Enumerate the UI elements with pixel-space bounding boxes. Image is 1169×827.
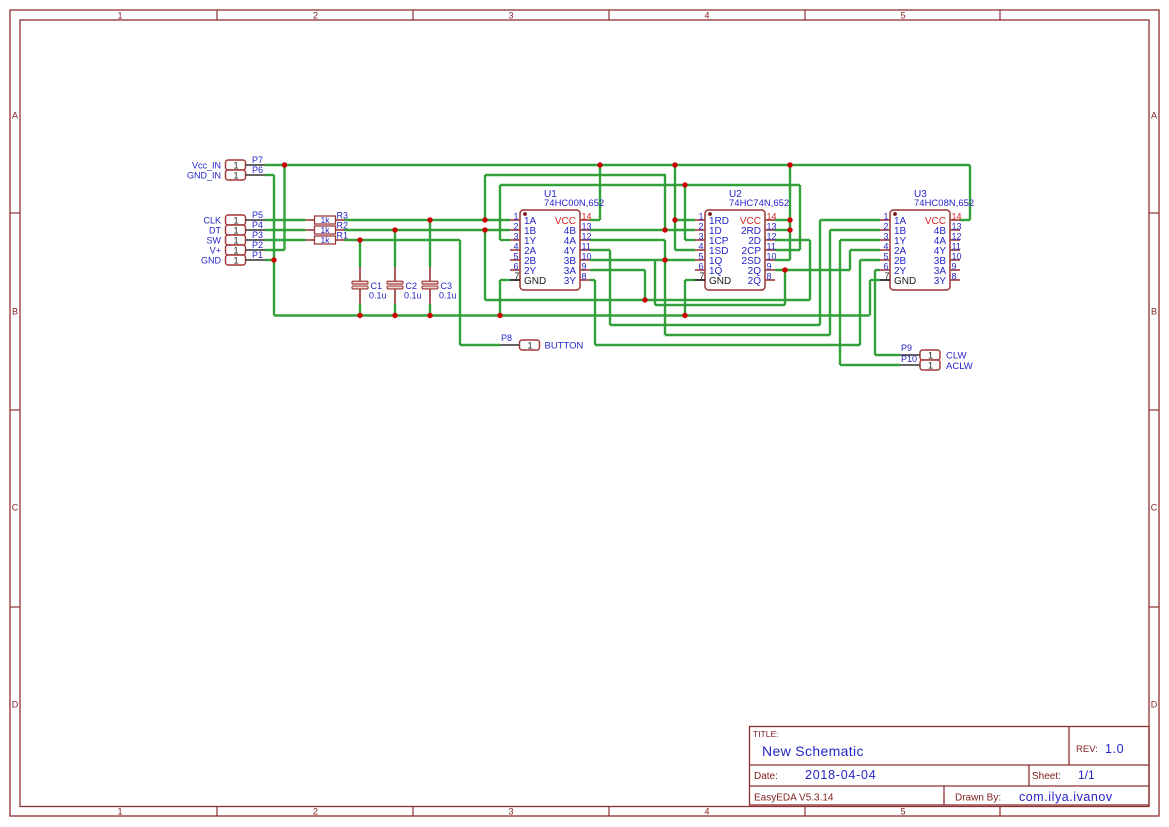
U1 pin 9 (3A) — [564, 262, 590, 278]
junction — [787, 217, 792, 222]
svg-text:0.1u: 0.1u — [369, 291, 387, 301]
svg-text:10: 10 — [767, 252, 777, 262]
wire to U3 pin2 — [830, 229, 880, 231]
capacitor C1 0.1u — [352, 267, 387, 304]
svg-text:10: 10 — [582, 252, 592, 262]
svg-text:D: D — [12, 700, 19, 710]
wire SW to P8 — [460, 344, 500, 346]
wire to U3 pin3 — [840, 239, 880, 241]
svg-text:R2: R2 — [337, 221, 349, 231]
U1 pin 12 (4A) — [564, 232, 592, 248]
svg-text:GND: GND — [709, 276, 731, 287]
wire to U3 pin5 — [860, 259, 880, 261]
svg-text:5: 5 — [900, 11, 905, 21]
U2 pin 7 (GND) — [695, 271, 731, 287]
svg-text:3: 3 — [698, 232, 703, 242]
wire U2 pin9 — [775, 269, 850, 271]
svg-text:4: 4 — [698, 242, 703, 252]
svg-text:8: 8 — [767, 272, 772, 282]
ruler row letters left — [12, 111, 19, 710]
connector P6 (GND_IN) — [187, 165, 265, 182]
wire to U1 pin3 — [500, 239, 510, 241]
svg-text:2: 2 — [883, 222, 888, 232]
wire U1 pin12 down — [664, 240, 666, 335]
connector P9 (CLW) — [900, 343, 966, 362]
svg-text:0.1u: 0.1u — [439, 291, 457, 301]
wire U1 pin8 — [590, 279, 595, 281]
svg-text:2: 2 — [313, 11, 318, 21]
svg-text:1: 1 — [527, 341, 532, 352]
svg-text:P5: P5 — [252, 210, 263, 220]
svg-text:com.ilya.ivanov: com.ilya.ivanov — [1019, 790, 1113, 804]
wire row 325 — [610, 324, 820, 326]
svg-text:10: 10 — [952, 252, 962, 262]
IC U1 74HC00N,652 body — [520, 189, 604, 290]
svg-text:1: 1 — [233, 171, 238, 182]
wire U3 pin2 down to row335 — [829, 230, 831, 335]
U3 pin 1 (1A) — [880, 212, 907, 228]
wire 1CP up to row185 — [684, 185, 686, 240]
resistor R2 1k — [306, 221, 349, 236]
wire 1Y up to row185 — [499, 185, 501, 240]
svg-text:New Schematic: New Schematic — [762, 743, 864, 759]
wire U1 pin10 to U2 pin5 — [590, 259, 695, 261]
wire U2 pin14 — [775, 219, 790, 221]
wire link 175-220 — [484, 175, 486, 220]
U1 pin 3 (1Y) — [510, 232, 537, 248]
junction — [271, 257, 276, 262]
svg-text:A: A — [1151, 111, 1157, 121]
svg-text:7: 7 — [884, 271, 889, 281]
wire C2 top — [394, 230, 396, 267]
svg-text:P10: P10 — [901, 354, 917, 364]
U1 pin 7 (GND) — [510, 271, 546, 287]
svg-text:P6: P6 — [252, 165, 263, 175]
svg-text:5: 5 — [513, 252, 518, 262]
svg-text:3Y: 3Y — [564, 276, 577, 287]
U1 pin 4 (2A) — [510, 242, 537, 258]
wire 2CP up to row185 — [799, 185, 801, 250]
wire CLK to U1 pin1 — [345, 219, 511, 221]
wire U1 pin12 — [590, 239, 665, 241]
svg-text:GND: GND — [894, 276, 916, 287]
U2 pin 13 (2RD) — [741, 222, 777, 238]
wire U3 pin3 down to row365 — [839, 240, 841, 365]
connector P3 (SW) — [207, 230, 266, 247]
svg-text:9: 9 — [767, 262, 772, 272]
svg-text:BUTTON: BUTTON — [545, 341, 584, 352]
wire U1 pin8 down — [594, 280, 596, 345]
svg-text:2Q: 2Q — [748, 276, 762, 287]
svg-text:1: 1 — [233, 256, 238, 267]
U2 pin 14 (VCC) — [740, 212, 777, 228]
wire U3 pin14 — [960, 219, 970, 221]
wire SW from R1 — [345, 239, 461, 241]
wire Vcc top rail — [265, 164, 970, 166]
svg-text:A: A — [12, 111, 18, 121]
svg-text:P7: P7 — [252, 155, 263, 165]
svg-text:B: B — [12, 307, 18, 317]
U3 pin 13 (4B) — [934, 222, 962, 238]
U1 pin 8 (3Y) — [564, 272, 590, 288]
wire SW down to P8 row — [459, 240, 461, 345]
junction — [392, 227, 397, 232]
junction — [497, 313, 502, 318]
wire U3 gnd — [870, 279, 880, 281]
U3 pin 11 (4Y) — [934, 242, 961, 258]
svg-text:5: 5 — [698, 252, 703, 262]
svg-text:12: 12 — [582, 232, 592, 242]
svg-text:4: 4 — [704, 807, 709, 817]
svg-text:P8: P8 — [501, 333, 512, 343]
wire DT down to row300 — [484, 230, 486, 300]
svg-text:11: 11 — [582, 242, 591, 252]
svg-text:CLK: CLK — [203, 215, 221, 225]
svg-text:14: 14 — [767, 212, 777, 222]
svg-text:74HC74N,652: 74HC74N,652 — [729, 198, 789, 209]
wire C3 top — [429, 220, 431, 267]
svg-text:V+: V+ — [210, 245, 221, 255]
svg-text:C2: C2 — [406, 281, 418, 291]
svg-text:D: D — [1151, 700, 1158, 710]
svg-text:GND: GND — [201, 255, 222, 265]
ruler ticks bottom — [217, 807, 1000, 817]
svg-text:11: 11 — [952, 242, 961, 252]
svg-text:3Y: 3Y — [934, 276, 947, 287]
svg-text:R3: R3 — [337, 211, 349, 221]
U3 pin 3 (1Y) — [880, 232, 907, 248]
svg-text:1: 1 — [513, 212, 518, 222]
U3 pin 8 (3Y) — [934, 272, 960, 288]
svg-text:DT: DT — [209, 225, 221, 235]
svg-text:C3: C3 — [441, 281, 453, 291]
connector P4 (DT) — [209, 220, 265, 237]
svg-text:Vcc_IN: Vcc_IN — [192, 160, 221, 170]
svg-text:1: 1 — [117, 11, 122, 21]
resistor R1 1k — [306, 231, 349, 246]
U3 pin 10 (3B) — [934, 252, 962, 268]
junction — [427, 313, 432, 318]
svg-text:7: 7 — [514, 271, 519, 281]
svg-text:12: 12 — [952, 232, 962, 242]
connector P1 (GND) — [201, 250, 265, 267]
svg-text:C1: C1 — [371, 281, 383, 291]
svg-text:5: 5 — [883, 252, 888, 262]
U3 pin 5 (2B) — [880, 252, 907, 268]
junction — [787, 162, 792, 167]
U3 pin 12 (4A) — [934, 232, 962, 248]
wire U3 pin6 down to row355 — [874, 270, 876, 355]
svg-text:2: 2 — [313, 807, 318, 817]
U1 pin 10 (3B) — [564, 252, 592, 268]
wire U2 pin13 — [775, 229, 790, 231]
wire vcc to V+ vertical — [283, 165, 285, 250]
wire C2 bottom — [394, 304, 396, 316]
wire U1 pin8 to U3 pin5 row — [595, 344, 860, 346]
svg-text:3: 3 — [508, 807, 513, 817]
U2 pin 5 (1Q) — [695, 252, 723, 268]
wire V+ to vcc vertical — [265, 249, 285, 251]
wire U3 gnd down — [869, 280, 871, 316]
wire U1 gnd down — [499, 280, 501, 316]
wire P3 to R1 — [265, 239, 306, 241]
svg-text:5: 5 — [900, 807, 905, 817]
wire U2 gnd down — [684, 280, 686, 316]
U3 pin 4 (2A) — [880, 242, 907, 258]
connector P8 (BUTTON) — [500, 333, 584, 352]
U2 pin 6 (1Q) — [695, 262, 723, 278]
U2 pin 9 (2Q) — [748, 262, 775, 278]
wire U2 pin11 — [775, 249, 800, 251]
wire U3 pin1 down to row325 — [819, 220, 821, 325]
ruler column numbers bottom — [117, 807, 905, 817]
svg-text:CLW: CLW — [946, 351, 966, 362]
wire U1 pin9 down — [644, 270, 646, 300]
ruler ticks top — [217, 10, 1000, 20]
svg-text:B: B — [1151, 307, 1157, 317]
U1 pin 11 (4Y) — [564, 242, 591, 258]
junction — [682, 182, 687, 187]
wire U3 vcc up — [969, 165, 971, 220]
U1 pin 2 (1B) — [510, 222, 537, 238]
wire U1 pin9 — [590, 269, 645, 271]
svg-text:P1: P1 — [252, 250, 263, 260]
wire to U2 pin4 — [675, 249, 695, 251]
svg-text:GND_IN: GND_IN — [187, 170, 221, 180]
svg-text:3: 3 — [883, 232, 888, 242]
svg-text:Drawn By:: Drawn By: — [955, 793, 1001, 804]
IC U2 74HC74N,652 body — [705, 189, 789, 290]
svg-text:7: 7 — [699, 271, 704, 281]
U1 pin 1 (1A) — [510, 212, 537, 228]
U3 pin 7 (GND) — [880, 271, 916, 287]
svg-text:9: 9 — [582, 262, 587, 272]
ruler row letters right — [1151, 111, 1158, 710]
wire P6 stub to vertical — [265, 174, 274, 176]
svg-text:REV:: REV: — [1076, 744, 1098, 755]
junction — [672, 162, 677, 167]
svg-text:13: 13 — [952, 222, 962, 232]
U1 pin 13 (4B) — [564, 222, 592, 238]
svg-text:1/1: 1/1 — [1078, 768, 1095, 782]
wire DT to U1 pin2 — [345, 229, 511, 231]
svg-text:1k: 1k — [321, 225, 331, 235]
ruler ticks right — [1149, 213, 1159, 607]
connector P5 (CLK) — [203, 210, 265, 227]
junction — [357, 313, 362, 318]
wire C1 top — [359, 240, 361, 267]
svg-text:1: 1 — [117, 807, 122, 817]
svg-text:14: 14 — [582, 212, 592, 222]
wire row 305 — [655, 304, 785, 306]
junction — [482, 217, 487, 222]
svg-text:1k: 1k — [321, 235, 331, 245]
wire to P9 — [875, 354, 900, 356]
IC U3 74HC08N,652 body — [890, 189, 974, 290]
junction — [392, 313, 397, 318]
wire P1 gnd stub — [265, 259, 274, 261]
U1 pin 14 (VCC) — [555, 212, 592, 228]
svg-text:C: C — [12, 503, 19, 513]
svg-text:TITLE:: TITLE: — [753, 729, 779, 739]
wire to U3 pin1 — [820, 219, 880, 221]
junction — [597, 162, 602, 167]
U2 pin 4 (1SD) — [695, 242, 728, 258]
junction — [642, 297, 647, 302]
U1 pin 5 (2B) — [510, 252, 537, 268]
svg-text:2: 2 — [698, 222, 703, 232]
svg-text:Sheet:: Sheet: — [1032, 771, 1061, 782]
svg-text:74HC00N,652: 74HC00N,652 — [544, 198, 604, 209]
wire U1 pin13 to U2 pin2 — [590, 229, 695, 231]
junction — [482, 227, 487, 232]
svg-text:0.1u: 0.1u — [404, 291, 422, 301]
svg-text:8: 8 — [952, 272, 957, 282]
svg-text:13: 13 — [582, 222, 592, 232]
junction — [787, 227, 792, 232]
wire to U2 pin1 — [675, 219, 695, 221]
U3 pin 14 (VCC) — [925, 212, 962, 228]
wire C3 bottom — [429, 304, 431, 316]
ruler column numbers top — [117, 11, 905, 21]
wire U1 pin11 — [590, 249, 610, 251]
capacitor C2 0.1u — [387, 267, 422, 304]
svg-text:4: 4 — [704, 11, 709, 21]
svg-text:C: C — [1151, 503, 1158, 513]
U1 pin 6 (2Y) — [510, 262, 537, 278]
wire to U2 pin3 — [685, 239, 695, 241]
wire U1 pin11 down — [609, 250, 611, 325]
wire U2 pin10 — [775, 259, 790, 261]
wire row 300 — [485, 299, 810, 301]
wire P5 to R3 — [265, 219, 306, 221]
wire P4 to R2 — [265, 229, 306, 231]
junction — [662, 257, 667, 262]
svg-text:13: 13 — [767, 222, 777, 232]
svg-text:P3: P3 — [252, 230, 263, 240]
svg-text:R1: R1 — [337, 231, 349, 241]
svg-text:4: 4 — [883, 242, 888, 252]
wire P6 gnd vertical — [273, 175, 275, 316]
svg-text:4: 4 — [513, 242, 518, 252]
U2 pin 11 (2CP) — [742, 242, 776, 258]
svg-text:8: 8 — [582, 272, 587, 282]
svg-text:2: 2 — [513, 222, 518, 232]
svg-text:1: 1 — [928, 361, 933, 372]
svg-text:1: 1 — [883, 212, 888, 222]
wire GND rail — [274, 314, 870, 316]
svg-text:P4: P4 — [252, 220, 263, 230]
U2 pin 1 (1RD) — [695, 212, 729, 228]
title block frame — [750, 727, 1150, 806]
wire vcc down to U2 — [674, 165, 676, 250]
U3 pin 2 (1B) — [880, 222, 907, 238]
wire U1 pin14 to vcc — [590, 219, 600, 221]
junction — [672, 217, 677, 222]
U2 pin 3 (1CP) — [695, 232, 729, 248]
wire U3 pin4 down to row270 — [849, 250, 851, 270]
svg-text:ACLW: ACLW — [946, 361, 973, 372]
svg-text:EasyEDA V5.3.14: EasyEDA V5.3.14 — [754, 793, 834, 804]
wire to U3 pin4 — [850, 249, 880, 251]
junction — [682, 313, 687, 318]
svg-text:9: 9 — [952, 262, 957, 272]
svg-text:SW: SW — [207, 235, 222, 245]
svg-text:GND: GND — [524, 276, 546, 287]
svg-text:P2: P2 — [252, 240, 263, 250]
wire row305 up — [654, 260, 656, 305]
wire row 335 — [665, 334, 830, 336]
junction — [357, 237, 362, 242]
junction — [662, 227, 667, 232]
svg-text:1.0: 1.0 — [1105, 742, 1124, 756]
wire link down to row230 — [664, 175, 666, 230]
ruler ticks left — [10, 213, 20, 607]
svg-text:3: 3 — [513, 232, 518, 242]
U2 pin 12 (2D) — [748, 232, 776, 248]
wire U1 vcc up — [599, 165, 601, 220]
svg-text:Date:: Date: — [754, 771, 778, 782]
svg-text:1k: 1k — [321, 215, 331, 225]
U3 pin 6 (2Y) — [880, 262, 907, 278]
wire U2 gnd — [685, 279, 695, 281]
junction — [427, 217, 432, 222]
junction — [282, 162, 287, 167]
svg-text:2018-04-04: 2018-04-04 — [805, 768, 876, 782]
svg-text:3: 3 — [508, 11, 513, 21]
connector P7 (Vcc_IN) — [192, 155, 265, 172]
U2 pin 10 (2SD) — [742, 252, 777, 268]
connector P10 (ACLW) — [900, 354, 973, 372]
wire U3 pin5 down to row345 — [859, 260, 861, 345]
U2 pin 8 (2Q) — [748, 272, 775, 288]
svg-text:11: 11 — [767, 242, 776, 252]
svg-text:14: 14 — [952, 212, 962, 222]
wire to U3 pin6 — [875, 269, 880, 271]
wire U2 pin9 down — [784, 270, 786, 305]
U3 pin 9 (3A) — [934, 262, 960, 278]
resistor R3 1k — [306, 211, 349, 226]
svg-text:74HC08N,652: 74HC08N,652 — [914, 198, 974, 209]
junction — [782, 267, 787, 272]
wire vcc down to U2 pin10 — [789, 165, 791, 260]
wire link row 175 — [485, 174, 666, 176]
wire to P10 — [840, 364, 900, 366]
U2 pin 2 (1D) — [695, 222, 722, 238]
capacitor C3 0.1u — [422, 267, 457, 304]
svg-text:P9: P9 — [901, 343, 912, 353]
connector P2 (V+) — [210, 240, 265, 257]
wire C1 bottom — [359, 304, 361, 316]
svg-text:12: 12 — [767, 232, 777, 242]
wire U1 gnd — [500, 279, 510, 281]
wire U2 pin12 — [775, 239, 810, 241]
wire 1Y-2CP row 185 — [500, 184, 800, 186]
wire 2D down to row300 — [809, 240, 811, 300]
svg-text:1: 1 — [698, 212, 703, 222]
